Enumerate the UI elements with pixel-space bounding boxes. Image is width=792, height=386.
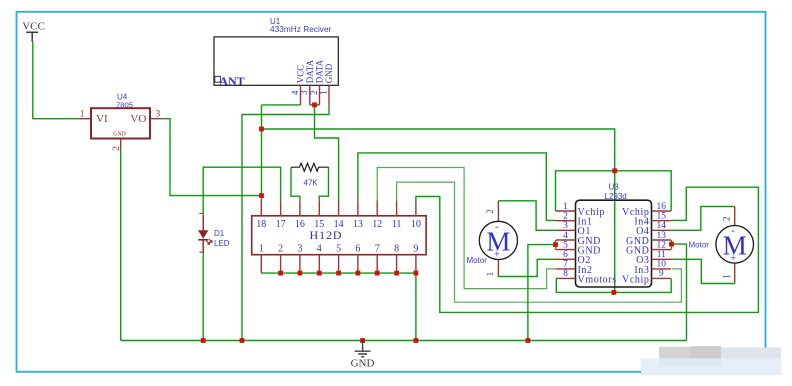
svg-text:U3: U3 (609, 183, 620, 192)
ground (355, 341, 371, 357)
resistor 47K (291, 163, 329, 171)
junction H12D bottom rail x299 (298, 271, 303, 276)
wire U3 O2 to left motor pin1 (498, 259, 556, 276)
U4 pin 1 stub (79, 118, 91, 120)
wire U3 GND pins 4-5 jumper (555, 240, 557, 250)
svg-text:9: 9 (659, 269, 664, 279)
junction U1 GND at ground rail (240, 338, 245, 343)
H12D bottom pin stub 9 (415, 255, 417, 273)
left motor pin 2 stub (497, 201, 499, 222)
svg-text:Motor: Motor (689, 240, 710, 249)
svg-text:16: 16 (295, 219, 305, 230)
IC U1 433mHz receiver box (214, 37, 338, 85)
wire U1 VCC pin4 to 5V vertical (262, 104, 301, 106)
H12D top pin stub 10 (415, 200, 417, 216)
H12D bottom pin stub 1 (260, 255, 262, 273)
svg-text:VI: VI (96, 113, 108, 125)
junction H12D rail at ground rail (414, 338, 419, 343)
right motor pin 2 stub (734, 207, 736, 226)
svg-text:1: 1 (563, 202, 568, 212)
svg-text:-: - (731, 224, 735, 236)
H12D bottom pin stub 3 (299, 255, 301, 273)
svg-text:1: 1 (318, 91, 328, 96)
svg-text:DATA: DATA (305, 59, 315, 83)
U3 left pin stub 8 (556, 277, 576, 279)
svg-text:+: + (730, 252, 736, 264)
wire H12D pin11 to U3 In3 (397, 182, 682, 302)
wire H12D pin10 to U3 In4 (416, 187, 759, 312)
left motor pin 1 stub (497, 260, 499, 277)
H12D bottom pin stub 7 (376, 255, 378, 273)
wire 5V vertical to H12D pin18 (261, 105, 263, 200)
wire U3 O4 to right motor pin2 (671, 207, 735, 231)
LED D1 anode tick (199, 212, 202, 214)
svg-text:ANT: ANT (219, 74, 244, 88)
junction H12D bottom rail x415 (414, 271, 419, 276)
svg-text:18: 18 (256, 219, 266, 230)
svg-text:Vmotors: Vmotors (578, 274, 617, 285)
U3 right pin stub 12 (652, 249, 672, 251)
svg-text:3: 3 (563, 221, 568, 231)
LED D1 cathode stub (202, 240, 204, 254)
svg-text:1: 1 (80, 110, 85, 120)
IC H12D box (252, 216, 426, 255)
motor M1 circle (479, 221, 517, 259)
H12D bottom pin stub 4 (318, 255, 320, 273)
junction H12D bottom rail x396 (394, 271, 399, 276)
svg-text:2: 2 (563, 212, 568, 222)
junction H12D bottom rail x377 (375, 271, 380, 276)
svg-text:1: 1 (722, 274, 732, 279)
H12D top pin stub 15 (318, 200, 320, 216)
U3 left pin stub 5 (556, 249, 576, 251)
svg-text:Motor: Motor (467, 256, 488, 265)
svg-text:LED: LED (214, 239, 230, 248)
junction H12D bottom rail x280 (278, 271, 283, 276)
svg-text:D1: D1 (214, 229, 225, 238)
svg-text:2: 2 (722, 217, 732, 222)
wire H12D bottom rail (261, 273, 416, 340)
svg-text:11: 11 (657, 250, 666, 260)
wire U4 VO to node 5V (162, 119, 261, 196)
right motor pin 1 stub (734, 263, 736, 284)
motor M2 circle (716, 226, 754, 264)
svg-text:2: 2 (278, 243, 283, 254)
svg-text:+: + (494, 248, 500, 260)
svg-text:1: 1 (259, 243, 264, 254)
svg-text:8: 8 (563, 269, 568, 279)
svg-text:10: 10 (657, 260, 667, 270)
wire U3 Vmotors pin8 to pin9 (556, 278, 671, 292)
IC U3 L293d box (576, 200, 652, 287)
wire resistor right lead to H12D pin15 (319, 167, 328, 200)
H12D top pin stub 12 (376, 200, 378, 216)
U3 right pin stub 15 (652, 220, 672, 222)
svg-text:3: 3 (299, 90, 309, 95)
junction H12D bottom rail x357 (356, 271, 361, 276)
junction U3 GND left at ground rail (526, 338, 531, 343)
wire U4 GND pin2 down to ground rail (120, 149, 122, 340)
svg-text:8: 8 (394, 243, 399, 254)
svg-text:17: 17 (276, 219, 286, 230)
svg-text:11: 11 (392, 219, 402, 230)
U3 left pin stub 6 (556, 258, 576, 260)
U3 right pin stub 9 (652, 277, 672, 279)
H12D bottom pin stub 5 (338, 255, 340, 273)
wire U3 GND pins 13-12 jumper (671, 240, 673, 250)
LED D1 triangle (198, 230, 208, 239)
svg-text:14: 14 (657, 221, 667, 231)
svg-text:1: 1 (485, 272, 495, 277)
wire VCC to U4 VI (33, 42, 79, 119)
svg-text:9: 9 (413, 243, 418, 254)
svg-text:GND: GND (113, 132, 126, 138)
LED D1 anode stub (202, 215, 204, 231)
U3 right pin stub 11 (652, 258, 672, 260)
svg-text:2: 2 (485, 209, 495, 214)
junction 5V at H12D pin18 (259, 193, 264, 198)
junction H12D bottom rail x319 (317, 271, 322, 276)
wire 5V rail to U3 supplies (262, 129, 615, 292)
svg-text:12: 12 (657, 240, 667, 250)
wire U3 GND right to ground rail (672, 244, 687, 340)
svg-text:4: 4 (317, 243, 322, 254)
H12D top pin stub 13 (357, 200, 359, 216)
H12D bottom pin stub 2 (280, 255, 282, 273)
svg-text:-: - (495, 220, 499, 232)
LED D1 cathode tick (199, 251, 202, 253)
svg-text:433mHz Reciver: 433mHz Reciver (270, 24, 332, 34)
svg-text:2: 2 (112, 146, 122, 151)
svg-text:5: 5 (336, 243, 341, 254)
junction ground symbol (360, 338, 365, 343)
wire resistor left lead to H12D pin16 (291, 167, 300, 200)
U1 pin stub 1 (328, 85, 330, 105)
H12D bottom pin stub 8 (396, 255, 398, 273)
svg-text:7: 7 (563, 260, 568, 270)
junction H12D bottom rail x338 (336, 271, 341, 276)
LED D1 light arrows (206, 239, 212, 245)
svg-text:5: 5 (563, 240, 568, 250)
H12D bottom pin stub 6 (357, 255, 359, 273)
wire DATA to H12D pin14 (315, 105, 339, 200)
svg-text:15: 15 (657, 212, 667, 222)
svg-text:H12D: H12D (310, 228, 343, 242)
U3 right pin stub 13 (652, 239, 672, 241)
wire U1 GND pin1 down to ground rail (242, 105, 329, 341)
junction LED at ground rail (201, 338, 206, 343)
U3 left pin stub 3 (556, 229, 576, 231)
svg-text:6: 6 (355, 243, 360, 254)
svg-text:13: 13 (657, 231, 667, 241)
power symbol VCC bar (26, 32, 38, 42)
wire U3 Vchip rail (556, 171, 672, 211)
svg-text:7805: 7805 (116, 100, 133, 109)
svg-text:GND: GND (351, 358, 375, 370)
svg-text:7: 7 (375, 243, 380, 254)
U4 pin 3 stub (150, 118, 162, 120)
svg-text:Vchip: Vchip (622, 274, 649, 285)
svg-text:VO: VO (130, 113, 146, 125)
U1 pin stub 2 (319, 85, 321, 105)
svg-text:12: 12 (372, 219, 382, 230)
H12D top pin stub 16 (299, 200, 301, 216)
wire U1 DATA pins jumper (310, 104, 320, 106)
svg-text:3: 3 (156, 110, 161, 120)
U1 ANT pin marker (215, 76, 221, 82)
U3 left pin stub 4 (556, 239, 576, 241)
svg-text:VCC: VCC (22, 21, 45, 33)
svg-text:DATA: DATA (315, 59, 325, 83)
svg-text:6: 6 (563, 250, 568, 260)
svg-text:4: 4 (563, 231, 568, 241)
LED D1 cathode bar (198, 239, 208, 241)
wire H12D pin13 to U3 In1 (358, 153, 556, 221)
regulator U4 7805 box (91, 108, 150, 138)
H12D top pin stub 18 (260, 200, 262, 216)
U3 left pin stub 2 (556, 220, 576, 222)
H12D top pin stub 11 (396, 200, 398, 216)
H12D top pin stub 14 (338, 200, 340, 216)
junction U3 GND right (669, 242, 674, 247)
svg-text:13: 13 (353, 219, 363, 230)
wire H12D pin12 to U3 In2 (377, 168, 556, 289)
U3 right pin stub 10 (652, 268, 672, 270)
wire LED cathode to ground rail (202, 253, 204, 340)
U3 right pin stub 14 (652, 229, 672, 231)
junction 5V at long rail (259, 127, 264, 132)
U1 pin stub 3 (309, 85, 311, 105)
wire U3 GND left to ground rail (528, 245, 556, 341)
H12D top pin stub 17 (280, 200, 282, 216)
junction U1 DATA pins (312, 103, 317, 108)
wire U3 O3 to right motor pin1 (671, 259, 735, 283)
U3 right pin stub 16 (652, 210, 672, 212)
junction Vchip rail (612, 168, 617, 173)
svg-text:47K: 47K (304, 179, 319, 188)
svg-text:16: 16 (657, 202, 667, 212)
U3 left pin stub 7 (556, 268, 576, 270)
U1 pin stub 4 (300, 85, 302, 105)
junction U3 GND left (553, 242, 558, 247)
svg-text:3: 3 (297, 243, 302, 254)
svg-text:10: 10 (411, 219, 421, 230)
svg-text:GND: GND (324, 63, 334, 83)
svg-text:L293d: L293d (605, 192, 627, 201)
watermark (641, 346, 781, 375)
U4 pin 2 stub (120, 139, 122, 150)
U3 left pin stub 1 (556, 210, 576, 212)
svg-text:2: 2 (309, 91, 319, 96)
wire U3 O1 to left motor pin2 (498, 201, 556, 231)
wire ground rail (121, 340, 687, 342)
wire H12D pin17 to LED D1 (203, 167, 280, 214)
junction Vmotors under U3 (612, 290, 617, 295)
